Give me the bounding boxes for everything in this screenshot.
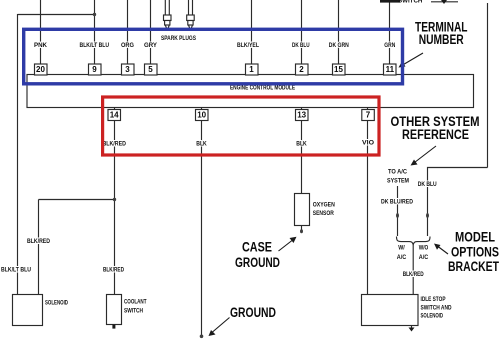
svg-text:NUMBER: NUMBER — [419, 32, 464, 47]
svg-text:BLK/RED: BLK/RED — [103, 267, 124, 274]
svg-text:BLK/LT BLU: BLK/LT BLU — [80, 42, 110, 49]
svg-text:A/C: A/C — [397, 254, 407, 261]
svg-text:TO A/C: TO A/C — [388, 169, 407, 176]
svg-text:SPARK PLUGS: SPARK PLUGS — [161, 35, 196, 42]
svg-text:DK GRN: DK GRN — [329, 42, 349, 49]
svg-text:OXYGEN: OXYGEN — [313, 202, 335, 209]
svg-text:COOLANT: COOLANT — [124, 299, 147, 306]
svg-text:BLK: BLK — [296, 141, 307, 148]
svg-text:SENSOR: SENSOR — [313, 210, 334, 217]
svg-text:PNK: PNK — [34, 42, 48, 49]
svg-text:BRACKET: BRACKET — [448, 259, 500, 274]
svg-text:W/: W/ — [398, 245, 405, 252]
svg-text:2: 2 — [299, 65, 304, 74]
svg-text:ORG: ORG — [121, 42, 134, 49]
svg-text:IDLE STOP: IDLE STOP — [421, 296, 446, 303]
svg-text:CASE: CASE — [242, 240, 272, 255]
svg-text:SWITCH: SWITCH — [124, 308, 143, 315]
svg-text:SOLENOID: SOLENOID — [421, 313, 444, 320]
svg-text:5: 5 — [148, 65, 153, 74]
svg-text:20: 20 — [36, 65, 45, 74]
svg-text:ENGINE CONTROL MODULE: ENGINE CONTROL MODULE — [230, 85, 295, 92]
svg-text:W/O: W/O — [419, 245, 429, 252]
svg-text:GRY: GRY — [144, 42, 158, 49]
svg-text:15: 15 — [334, 65, 343, 74]
svg-text:DK BLU: DK BLU — [292, 42, 310, 49]
svg-text:SOLENOID: SOLENOID — [45, 300, 68, 307]
svg-text:A/C: A/C — [419, 254, 429, 261]
svg-text:BLK/YEL: BLK/YEL — [237, 42, 259, 49]
svg-text:OPTIONS: OPTIONS — [451, 245, 499, 260]
svg-text:REFERENCE: REFERENCE — [402, 127, 469, 142]
svg-text:BLK/RED: BLK/RED — [403, 271, 424, 278]
svg-text:BLK/RED: BLK/RED — [102, 141, 126, 148]
svg-text:GROUND: GROUND — [230, 305, 276, 320]
svg-text:11: 11 — [386, 65, 395, 74]
svg-text:1: 1 — [249, 65, 254, 74]
svg-text:GRN: GRN — [384, 42, 395, 49]
svg-text:BLK/LT BLU: BLK/LT BLU — [1, 267, 31, 274]
svg-text:DK BLU: DK BLU — [418, 181, 437, 188]
svg-text:DK BLU/RED: DK BLU/RED — [381, 199, 413, 206]
svg-text:SWITCH AND: SWITCH AND — [421, 305, 452, 312]
svg-text:10: 10 — [197, 111, 206, 120]
svg-text:3: 3 — [125, 65, 130, 74]
svg-text:13: 13 — [297, 111, 306, 120]
svg-text:GROUND: GROUND — [235, 255, 280, 270]
svg-text:SYSTEM: SYSTEM — [387, 178, 409, 185]
svg-text:SWITCH: SWITCH — [398, 0, 423, 4]
svg-text:BLK: BLK — [196, 141, 207, 148]
svg-text:7: 7 — [366, 111, 371, 120]
svg-text:VIO: VIO — [362, 140, 374, 147]
svg-text:BLK/RED: BLK/RED — [27, 238, 50, 245]
svg-text:MODEL: MODEL — [455, 230, 495, 245]
svg-text:9: 9 — [92, 65, 97, 74]
svg-text:14: 14 — [110, 111, 119, 120]
